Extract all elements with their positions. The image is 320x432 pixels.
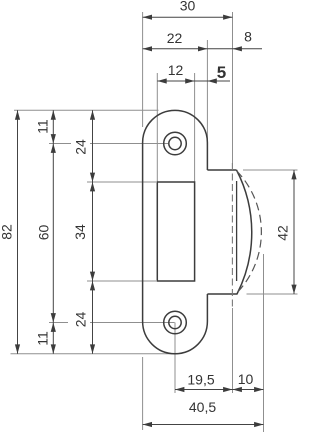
- dimension 40,5 arrows: [143, 422, 264, 427]
- svg-text:82: 82: [0, 224, 15, 240]
- lip bottom edge: [207, 293, 237, 295]
- extension line: cutout left (x=157.3): [156, 73, 158, 182]
- svg-text:24: 24: [73, 312, 89, 328]
- extension line: bottom hole center vertical (x=175): [174, 323, 176, 394]
- dimension 22 arrows: [143, 46, 208, 51]
- extension line: lip bend line lower (x=232.5): [232, 308, 234, 393]
- extension line: cutout bottom (y=281): [87, 280, 156, 282]
- svg-text:11: 11: [34, 119, 50, 134]
- dimension 42 arrows: [291, 170, 296, 294]
- lip hidden curve dashed: [237, 171, 262, 293]
- extension line: plate left edge bottom (x=142.6): [142, 357, 144, 430]
- svg-text:30: 30: [180, 0, 196, 14]
- top screw hole inner: [169, 137, 181, 149]
- dimension 82 line: [17, 110, 19, 353]
- svg-text:19,5: 19,5: [187, 372, 214, 388]
- extension line: plate bottom (y=353.8): [11, 353, 179, 355]
- svg-text:60: 60: [36, 225, 52, 241]
- dimension 24/34/24 line: [92, 110, 94, 353]
- dimension 42 line: [293, 170, 295, 294]
- lip outer curve: [237, 170, 252, 294]
- extension line: top hole centerline (y=143.5, gap for text 24): [49, 143, 168, 145]
- svg-text:5: 5: [217, 63, 226, 82]
- dimension 60 arrows: [51, 144, 56, 323]
- dimension 19,5 line: [175, 389, 233, 391]
- extension line: lip bend line upper (x=232.5): [232, 12, 234, 163]
- dimension 12 line: [157, 80, 230, 82]
- svg-text:22: 22: [167, 30, 183, 46]
- svg-text:11: 11: [34, 331, 50, 346]
- extension line: lip outer projection (x=263.5): [263, 254, 265, 432]
- extension line: plate top (y=110.3): [14, 109, 159, 111]
- extension line: plate right edge (x=207.4): [206, 40, 208, 145]
- dimension 11 top arrows: [51, 110, 56, 143]
- svg-text:12: 12: [168, 62, 184, 78]
- extension line: bottom hole centerline (y=322.5, gap for text 24): [49, 322, 175, 324]
- extension line: lip bottom to 42 dim (y=294): [247, 293, 298, 295]
- lip bend dashed line: [231, 163, 233, 308]
- bottom screw hole inner: [169, 316, 181, 328]
- dimension 40,5 line: [143, 424, 264, 426]
- dimension 8 arrow: [233, 46, 242, 51]
- lip top edge: [207, 169, 236, 171]
- latch cutout rectangle: [157, 182, 194, 281]
- dimension 82 arrows: [15, 110, 20, 353]
- dimension 24 bottom arrows: [90, 281, 95, 354]
- dimension 22 line: [143, 48, 208, 50]
- extension line: lip top to 42 dim (y=170): [243, 169, 298, 171]
- dimension 30 arrows: [143, 15, 233, 20]
- dimension 12 arrows: [157, 78, 194, 83]
- dimension 30 line: [143, 16, 233, 18]
- top screw hole outer: [164, 132, 187, 155]
- dimension 10 arrows: [233, 387, 264, 392]
- svg-text:34: 34: [72, 224, 88, 240]
- dimension 5 arrow: [207, 78, 216, 83]
- dimension 10 line: [233, 389, 264, 391]
- dimension 34 arrows: [90, 182, 95, 281]
- dimension 24 top arrows: [90, 110, 95, 182]
- svg-text:40,5: 40,5: [189, 399, 216, 415]
- dimension 11 bottom arrows: [51, 323, 56, 354]
- svg-text:8: 8: [244, 29, 252, 45]
- svg-text:42: 42: [275, 225, 291, 241]
- bottom screw hole outer: [164, 311, 187, 334]
- dimension 11/60/11 line: [52, 110, 54, 353]
- svg-text:10: 10: [238, 371, 254, 387]
- svg-text:24: 24: [73, 139, 89, 155]
- lip inner edge line: [236, 181, 238, 281]
- plate outline: [143, 110, 208, 353]
- dimension 8 line: [207, 48, 262, 50]
- extension line: cutout top (y=182): [87, 181, 156, 183]
- extension line: plate left edge top (x=142.6): [142, 12, 144, 127]
- extension line: cutout right (x=194.6): [194, 73, 196, 182]
- dimension 19,5 arrows: [175, 387, 233, 392]
